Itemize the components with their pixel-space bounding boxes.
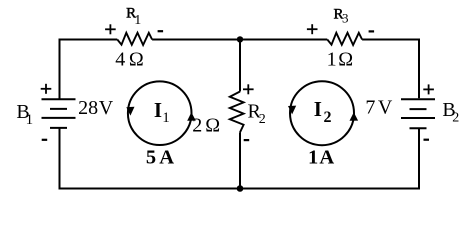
- svg-text:2: 2: [192, 114, 202, 136]
- svg-text:1: 1: [26, 112, 33, 128]
- polarity + R3: [307, 24, 318, 34]
- battery B1: [42, 99, 76, 128]
- svg-text:Ω: Ω: [129, 48, 144, 70]
- svg-text:V: V: [378, 97, 393, 119]
- svg-text:Ω: Ω: [205, 114, 220, 136]
- mesh current loop I1: [128, 81, 192, 145]
- polarity - B2: [424, 139, 430, 141]
- battery B2: [401, 99, 435, 128]
- svg-text:7: 7: [365, 97, 375, 119]
- polarity + R2: [243, 84, 254, 94]
- svg-text:2: 2: [452, 110, 459, 125]
- svg-text:3: 3: [342, 11, 349, 26]
- wire left rail: B1 top plate up to top-left corner, right to R1: [60, 40, 118, 99]
- I2 arrowhead left (down): [288, 106, 296, 115]
- resistor R3: [327, 33, 362, 45]
- svg-text:1: 1: [134, 13, 141, 28]
- svg-text:A: A: [319, 147, 334, 169]
- svg-text:5: 5: [146, 147, 156, 169]
- polarity + B2: [423, 84, 434, 94]
- wire R1 to top node: [152, 39, 240, 41]
- I2 arrowhead right (up): [350, 112, 359, 121]
- polarity + R1: [105, 24, 116, 34]
- I1 arrowhead right (up): [187, 112, 196, 121]
- resistor R2: [230, 92, 244, 133]
- wire top node to R3: [240, 39, 327, 41]
- wire R3 to top-right corner down to B2: [362, 40, 419, 99]
- wire top node down to R2: [239, 40, 241, 92]
- node bottom junction: [237, 185, 244, 192]
- polarity - R2: [244, 139, 250, 141]
- polarity + B1: [41, 84, 52, 94]
- wire bottom node to bottom-right corner up to B2: [240, 129, 419, 189]
- node top junction: [237, 36, 243, 42]
- resistor R1: [117, 33, 152, 45]
- svg-text:Ω: Ω: [338, 48, 353, 70]
- mesh current loop I2: [290, 81, 354, 145]
- svg-text:A: A: [159, 147, 174, 169]
- svg-text:I: I: [154, 98, 162, 122]
- polarity - R3: [369, 30, 375, 32]
- polarity - R1: [158, 30, 164, 32]
- svg-text:1: 1: [308, 147, 318, 169]
- svg-text:28: 28: [78, 97, 98, 119]
- svg-text:1: 1: [162, 110, 170, 126]
- wire R2 down to bottom node: [239, 132, 241, 188]
- svg-text:I: I: [314, 97, 322, 121]
- svg-text:V: V: [99, 97, 114, 119]
- svg-text:1: 1: [327, 48, 337, 70]
- polarity - B1: [42, 139, 48, 141]
- wire B1 bottom to bottom-left corner to bottom node: [60, 129, 241, 189]
- svg-text:2: 2: [259, 112, 266, 127]
- I1 arrowhead left (down): [126, 107, 134, 116]
- svg-text:4: 4: [115, 48, 125, 70]
- svg-text:2: 2: [324, 109, 332, 126]
